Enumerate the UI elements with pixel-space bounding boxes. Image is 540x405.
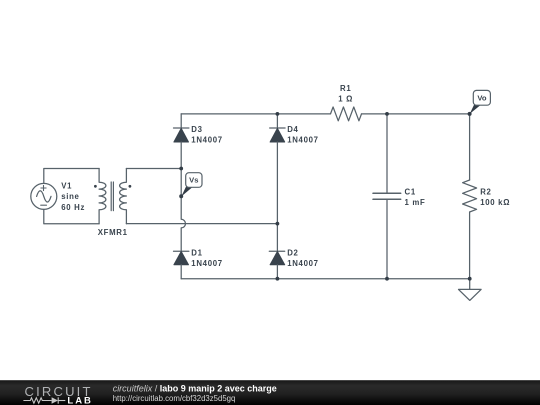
diode D3 <box>174 128 189 142</box>
wire R2 column upper <box>469 114 471 180</box>
svg-text:http://circuitlab.com/cbf32d3z: http://circuitlab.com/cbf32d3z5d5gq <box>113 394 236 403</box>
wire secondary top <box>126 168 181 170</box>
capacitor C1 <box>373 193 401 199</box>
wire left column middle (with hop) <box>181 142 185 251</box>
wire left column upper <box>180 114 182 128</box>
svg-text:1N4007: 1N4007 <box>191 135 223 144</box>
svg-text:R2: R2 <box>480 188 491 197</box>
footer bar <box>0 380 540 405</box>
node Vo dot <box>468 112 472 116</box>
node junction ground / bottom rail <box>468 277 472 281</box>
node junction C1 / top rail <box>385 112 389 116</box>
wire R2 column lower <box>469 212 471 279</box>
diode D2 <box>269 251 284 265</box>
svg-text:sine: sine <box>61 192 79 201</box>
wire left column lower <box>180 265 182 279</box>
wire V1 top <box>44 169 99 184</box>
diode D4 <box>270 128 285 142</box>
junction dots <box>179 112 471 281</box>
svg-text:D2: D2 <box>287 249 298 258</box>
capacitor C1 wire lower <box>386 199 388 279</box>
node junction D2 / bottom rail <box>276 277 280 281</box>
node junction secondary-top / bridge <box>179 167 183 171</box>
wire bottom rail <box>181 278 470 280</box>
capacitor C1 wire upper <box>386 114 388 193</box>
svg-text:D3: D3 <box>191 125 202 134</box>
svg-text:1 mF: 1 mF <box>405 198 426 207</box>
svg-text:V1: V1 <box>61 182 72 191</box>
node junction secondary-bottom / D2 column <box>276 222 280 226</box>
node Vs dot <box>179 194 183 198</box>
node flag Vs <box>181 173 202 197</box>
svg-text:60 Hz: 60 Hz <box>61 203 85 212</box>
voltage source V1 <box>31 183 57 209</box>
node junction D4 / top rail <box>276 112 280 116</box>
wire right column middle <box>276 142 278 251</box>
svg-text:1N4007: 1N4007 <box>287 135 319 144</box>
svg-text:1N4007: 1N4007 <box>191 259 223 268</box>
wire top rail left <box>181 113 330 115</box>
wire top rail right <box>362 113 470 115</box>
resistor R1 <box>331 107 362 121</box>
wire secondary bottom <box>126 223 277 225</box>
ground <box>459 279 482 301</box>
wire right column lower <box>276 265 278 279</box>
footer logo circuit drawing <box>23 397 65 403</box>
node flag Vo <box>470 90 491 114</box>
wire right column upper <box>276 114 278 128</box>
svg-text:circuitfelix / labo 9 manip 2: circuitfelix / labo 9 manip 2 avec charg… <box>113 384 277 394</box>
svg-text:LAB: LAB <box>67 396 93 405</box>
svg-text:R1: R1 <box>340 84 351 93</box>
svg-text:D1: D1 <box>191 249 202 258</box>
svg-text:1 Ω: 1 Ω <box>338 95 353 104</box>
svg-text:100 kΩ: 100 kΩ <box>480 198 510 207</box>
resistor R2 <box>463 180 477 212</box>
svg-text:D4: D4 <box>287 125 298 134</box>
svg-text:Vo: Vo <box>477 94 487 103</box>
node junction C1 / bottom rail <box>385 277 389 281</box>
diode D1 <box>174 251 189 265</box>
svg-text:Vs: Vs <box>189 176 198 185</box>
svg-text:C1: C1 <box>405 188 416 197</box>
svg-text:XFMR1: XFMR1 <box>98 228 128 237</box>
wire V1 bottom <box>44 209 99 223</box>
transformer XFMR1 <box>94 169 131 224</box>
svg-text:1N4007: 1N4007 <box>287 259 319 268</box>
